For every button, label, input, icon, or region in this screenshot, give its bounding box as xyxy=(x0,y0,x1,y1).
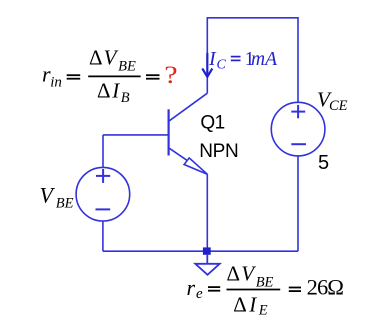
svg-text:Δ: Δ xyxy=(97,79,111,103)
wire: emitter diagonal xyxy=(169,148,208,174)
svg-text:26Ω: 26Ω xyxy=(307,275,344,300)
svg-text:Δ: Δ xyxy=(227,261,241,285)
VBE plus sign xyxy=(96,169,110,183)
VCE minus sign xyxy=(291,143,306,145)
node: emitter junction xyxy=(203,247,211,254)
svg-text:C: C xyxy=(217,57,227,72)
VCE plus sign xyxy=(291,105,305,118)
svg-text:mA: mA xyxy=(251,49,277,70)
ground stem xyxy=(206,255,208,264)
wire: bottom rail xyxy=(103,250,298,252)
label VCE xyxy=(317,87,348,114)
voltage source VCE circle xyxy=(271,102,325,156)
label IC = 1mA xyxy=(208,48,277,72)
wire: base wire xyxy=(103,134,168,136)
svg-text:5: 5 xyxy=(318,152,329,174)
wire: emitter vertical to node xyxy=(206,174,208,251)
svg-text:I: I xyxy=(248,292,257,316)
formula rin xyxy=(42,46,160,106)
svg-text:V: V xyxy=(104,46,119,70)
svg-text:Δ: Δ xyxy=(89,46,103,70)
transistor Q1 base bar xyxy=(168,109,170,155)
wire: VBE top lead xyxy=(102,135,104,168)
svg-text:V: V xyxy=(241,261,256,285)
svg-text:?: ? xyxy=(164,61,177,89)
svg-text:BE: BE xyxy=(118,59,136,75)
svg-text:BE: BE xyxy=(56,196,74,212)
svg-text:Δ: Δ xyxy=(233,292,247,316)
svg-text:BE: BE xyxy=(256,275,274,291)
ground symbol xyxy=(195,264,219,275)
svg-text:r: r xyxy=(187,275,196,300)
svg-text:B: B xyxy=(121,90,130,106)
wire: VBE bottom lead xyxy=(102,221,104,251)
wire: top rail from collector to VCE xyxy=(207,18,298,103)
svg-text:CE: CE xyxy=(329,98,348,114)
voltage source VBE circle xyxy=(76,167,130,221)
transistor Q1 emitter arrowhead xyxy=(184,158,207,174)
svg-text:in: in xyxy=(50,74,62,90)
wire: collector diagonal xyxy=(169,93,208,121)
svg-text:I: I xyxy=(111,79,120,103)
svg-text:e: e xyxy=(196,286,203,302)
VBE minus sign xyxy=(96,208,111,210)
svg-text:Q1: Q1 xyxy=(200,112,224,133)
current arrow IC xyxy=(202,53,212,77)
svg-text:E: E xyxy=(258,303,268,319)
svg-text:NPN: NPN xyxy=(199,141,238,162)
svg-text:V: V xyxy=(40,182,56,207)
formula re xyxy=(187,261,344,318)
label VBE xyxy=(40,182,74,211)
wire: VCE bottom lead xyxy=(297,156,299,251)
